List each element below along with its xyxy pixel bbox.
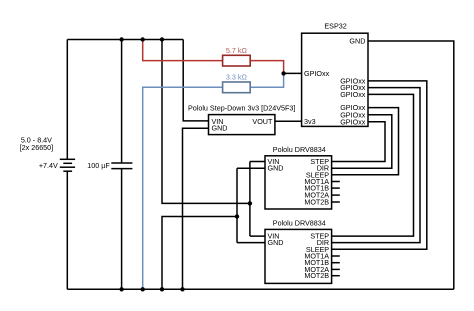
node gnd branch — [160, 287, 164, 291]
svg-text:GND: GND — [268, 238, 284, 247]
pin stub driver1 MOT2B — [332, 201, 340, 203]
resistor R1 body — [223, 55, 251, 66]
wire GPIO to driver2 DIR — [332, 88, 420, 243]
wire bottom ground rail — [67, 288, 454, 290]
pin stub driver2 MOT2A — [332, 268, 340, 270]
node cap bottom — [119, 287, 123, 291]
step-down U2 box — [209, 115, 275, 135]
wire GPIO to driver1 SLEEP — [332, 108, 399, 175]
wire GPIO to driver1 STEP — [332, 122, 385, 162]
pin labels driver2 — [268, 232, 330, 281]
node divider top — [141, 37, 145, 41]
svg-text:Pololu DRV8834: Pololu DRV8834 — [273, 145, 326, 154]
svg-text:100 µF: 100 µF — [87, 161, 110, 170]
wire GND branch from rail to junction — [162, 217, 237, 290]
wire right vertical ESP32 GND — [368, 41, 454, 289]
svg-text:GPIOxx: GPIOxx — [340, 90, 366, 99]
svg-text:5.7 kΩ: 5.7 kΩ — [226, 46, 248, 55]
driver U4 box — [265, 229, 332, 283]
wire left vertical to battery — [66, 40, 68, 290]
wire GPIO to driver2 SLEEP — [332, 81, 427, 249]
ESP32 U1 box — [302, 33, 368, 126]
svg-text:GND: GND — [212, 124, 228, 133]
node gnd chain — [235, 214, 239, 218]
svg-text:[2x 26650]: [2x 26650] — [20, 143, 54, 152]
wire GND chain to both drivers — [237, 168, 265, 242]
node divider bottom — [141, 287, 145, 291]
driver U3 box — [265, 156, 332, 209]
pin stub driver1 MOT1A — [332, 181, 340, 183]
resistor R2 3.3k wires (blue) — [143, 73, 284, 289]
pin stub driver2 MOT1B — [332, 262, 340, 264]
svg-text:MOT2B: MOT2B — [304, 198, 329, 207]
svg-text:VOUT: VOUT — [252, 117, 273, 126]
node vin chain — [248, 201, 252, 205]
node vin top — [160, 37, 164, 41]
resistor R1 5.7k wires (red) — [143, 40, 284, 74]
wire VOUT to 3v3 — [275, 120, 302, 122]
node cap top — [119, 37, 123, 41]
wire VIN chain to both drivers — [250, 162, 265, 237]
wire capacitor branch — [121, 40, 123, 290]
svg-text:GND: GND — [268, 164, 284, 173]
svg-text:3v3: 3v3 — [304, 117, 316, 126]
resistor R2 body — [223, 82, 251, 93]
capacitor C1 plates — [111, 163, 132, 169]
svg-text:Pololu Step-Down 3v3 [D24V5F3]: Pololu Step-Down 3v3 [D24V5F3] — [188, 103, 295, 112]
svg-text:GPIOxx: GPIOxx — [340, 117, 366, 126]
wire top rail battery+ — [67, 39, 183, 41]
pin labels driver1 — [268, 157, 330, 207]
pin stub driver2 MOT1A — [332, 255, 340, 257]
svg-text:MOT2B: MOT2B — [304, 271, 329, 280]
svg-text:ESP32: ESP32 — [324, 22, 346, 31]
pin labels ESP32 — [304, 37, 366, 127]
wire GPIO to driver1 DIR — [332, 115, 392, 168]
svg-text:Pololu DRV8834: Pololu DRV8834 — [273, 218, 326, 227]
wire step-down VIN — [183, 40, 208, 121]
svg-text:GND: GND — [349, 37, 365, 46]
pin stub driver2 MOT2B — [332, 275, 340, 277]
svg-text:+7.4V: +7.4V — [39, 161, 58, 170]
svg-text:3.3 kΩ: 3.3 kΩ — [226, 73, 248, 82]
wire GPIO to driver2 STEP — [332, 94, 414, 236]
wire step-down GND — [183, 128, 209, 289]
pin stub driver1 MOT1B — [332, 187, 340, 189]
pin stub driver1 MOT2A — [332, 194, 340, 196]
battery B1 plates — [60, 159, 75, 171]
svg-text:GPIOxx: GPIOxx — [304, 69, 330, 78]
node stepdown gnd — [180, 287, 184, 291]
pin labels step-down — [212, 117, 274, 133]
node divider mid — [281, 71, 285, 75]
wire VIN branch to junction — [162, 40, 250, 204]
wire divider junction to GPIOxx — [284, 72, 302, 74]
